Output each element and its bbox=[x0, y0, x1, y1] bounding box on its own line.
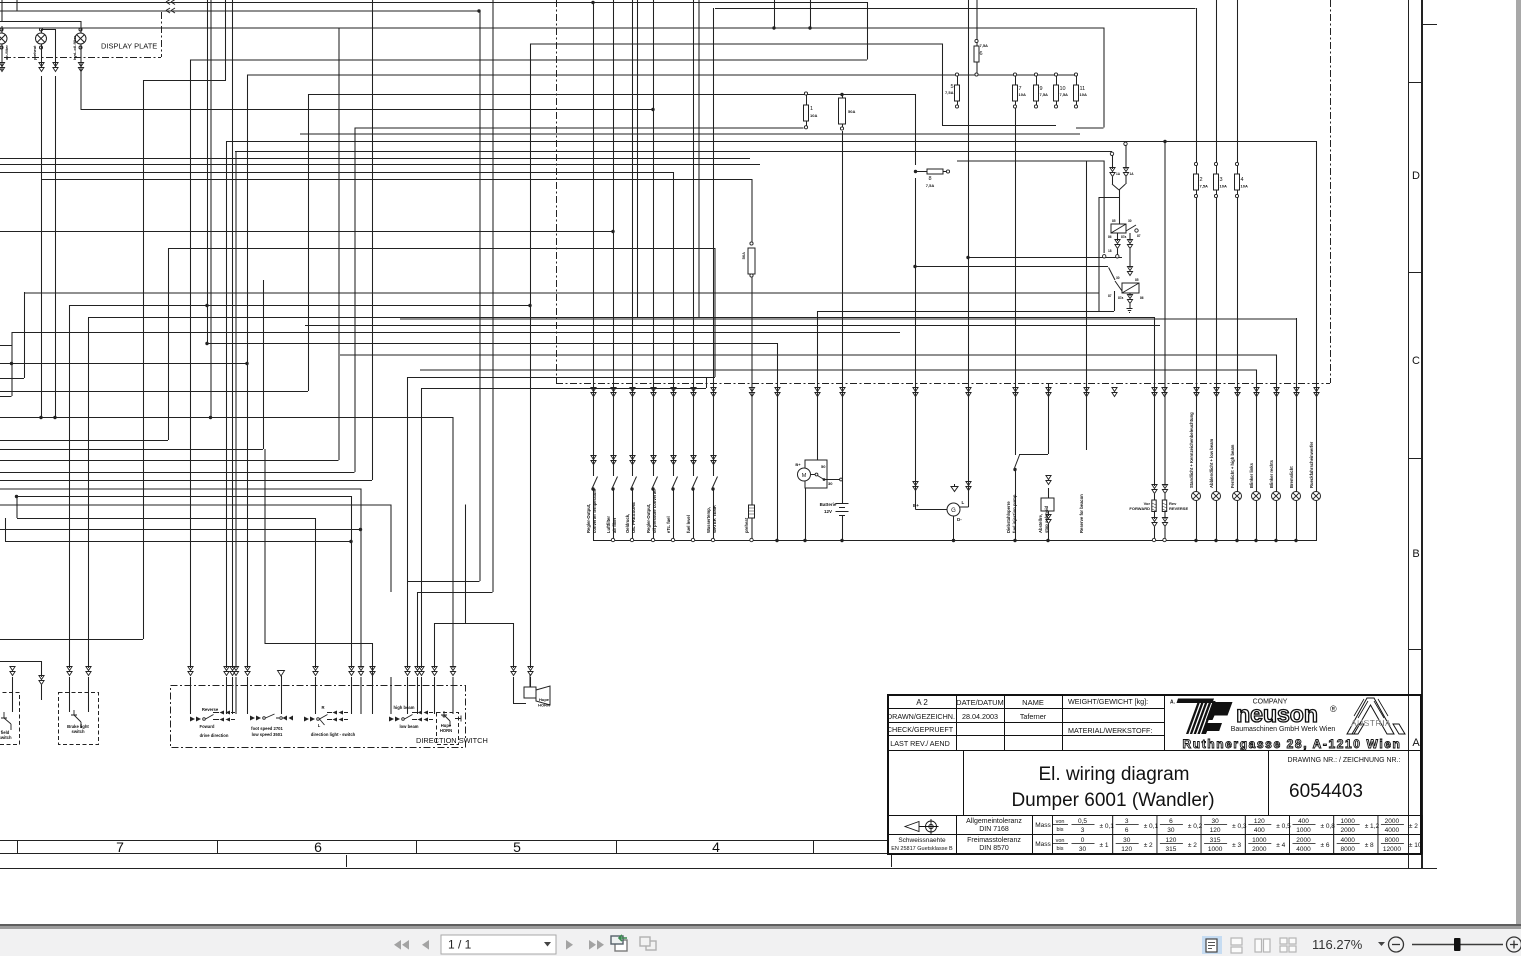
svg-text:116.27%: 116.27% bbox=[1312, 937, 1363, 952]
svg-text:1 / 1: 1 / 1 bbox=[448, 938, 472, 952]
